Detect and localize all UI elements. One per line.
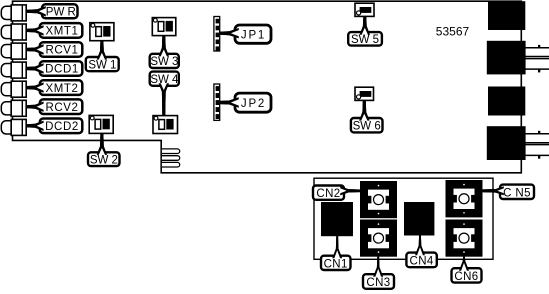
label SW4 [150, 72, 179, 116]
jumper block JP1 [214, 17, 220, 52]
label CN1 [321, 236, 351, 271]
LED RCV1 [1, 43, 26, 59]
svg-text:RCV2: RCV2 [45, 102, 78, 114]
card-edge fingers (3 contacts) [162, 149, 180, 154]
svg-text:XMT1: XMT1 [45, 26, 78, 38]
label SW6 [351, 100, 383, 132]
svg-text:JP2: JP2 [241, 98, 266, 110]
board outline (main PCB) [13, 1, 522, 173]
label RCV1 [27, 42, 83, 57]
switch SW6 [355, 87, 374, 100]
connector CN4 [404, 202, 434, 236]
label PWR [27, 4, 78, 18]
label SW5 [348, 16, 382, 46]
label CN6 [452, 257, 482, 283]
LED XMT1 [1, 24, 26, 40]
label CN3 [363, 257, 394, 290]
connector block (top, right edge) [488, 1, 525, 30]
label CN4 [406, 235, 436, 267]
svg-text:CN1: CN1 [324, 258, 348, 270]
svg-text:C N5: C N5 [503, 188, 531, 200]
switch SW4 [153, 116, 178, 134]
switch SW3 [152, 18, 176, 36]
daughter board outline [314, 178, 493, 259]
svg-text:CN4: CN4 [409, 256, 433, 268]
connector CN1 [321, 202, 353, 236]
connector block 3 (right edge) [488, 87, 525, 116]
svg-text:SW 3: SW 3 [150, 56, 178, 68]
connector block 4 (right edge, with pins) [487, 126, 526, 160]
switch SW5 [355, 3, 374, 16]
svg-text:CN3: CN3 [366, 277, 390, 289]
svg-text:JP1: JP1 [241, 30, 266, 42]
connector CN3 (jack) [360, 220, 397, 257]
label SW3 [150, 36, 179, 68]
svg-text:PW R: PW R [46, 7, 76, 19]
svg-text:RCV1: RCV1 [45, 45, 78, 57]
svg-text:SW 2: SW 2 [90, 154, 118, 166]
label CN2 [313, 186, 360, 201]
svg-text:SW 4: SW 4 [150, 74, 179, 86]
label CN5 [483, 185, 534, 200]
svg-text:SW 6: SW 6 [353, 121, 381, 133]
label SW2 [88, 134, 120, 167]
switch SW1 [90, 23, 114, 41]
svg-text:SW 1: SW 1 [88, 59, 116, 71]
connector block 2 (right edge, with pins) [487, 41, 526, 75]
LED DCD1 [1, 62, 26, 78]
pins of block 2 [525, 48, 549, 69]
LED XMT2 [1, 81, 26, 97]
switch SW2 [89, 115, 113, 133]
label RCV2 [27, 99, 83, 114]
LED DCD2 [1, 119, 26, 135]
connector CN5 (jack) [446, 180, 483, 217]
svg-text:CN6: CN6 [454, 271, 478, 283]
svg-text:XMT2: XMT2 [45, 83, 78, 95]
svg-text:53567: 53567 [436, 25, 470, 39]
svg-text:DCD1: DCD1 [45, 64, 79, 76]
svg-text:CN2: CN2 [316, 188, 340, 200]
jumper block JP2 [214, 84, 220, 120]
svg-text:DCD2: DCD2 [45, 121, 79, 133]
connector CN2 (jack) [360, 181, 397, 218]
label JP2 [220, 93, 271, 112]
label DCD2 [27, 119, 83, 134]
LED RCV2 [1, 100, 26, 116]
LED PWR [1, 5, 26, 21]
svg-text:SW 5: SW 5 [351, 34, 379, 46]
label XMT1 [27, 23, 83, 38]
pins of block 4 [525, 134, 549, 156]
label JP1 [220, 25, 271, 43]
label XMT2 [27, 80, 83, 95]
label SW1 [86, 41, 119, 72]
connector CN6 (jack) [446, 220, 483, 257]
label DCD1 [27, 61, 83, 76]
